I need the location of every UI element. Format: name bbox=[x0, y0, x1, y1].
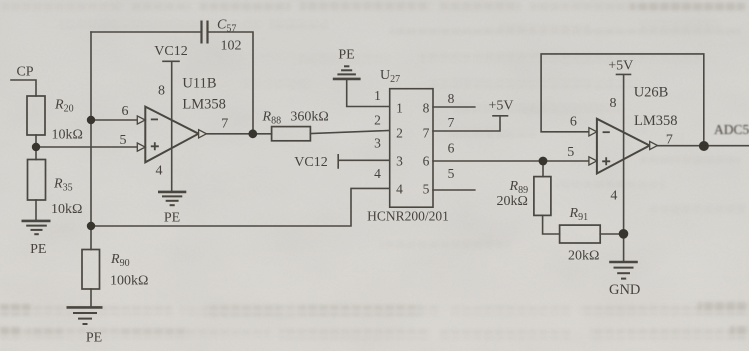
wire U26B output to ADC5 bbox=[656, 145, 749, 147]
svg-text:360kΩ: 360kΩ bbox=[290, 110, 328, 125]
svg-text:PE: PE bbox=[164, 211, 180, 226]
pin 6 input arrow bbox=[589, 128, 597, 136]
wire U26B pin 8 stem to +5V bar bbox=[617, 74, 631, 261]
ground PE under R90 bbox=[67, 307, 103, 324]
svg-text:10kΩ: 10kΩ bbox=[51, 202, 82, 217]
svg-text:PE: PE bbox=[338, 48, 354, 63]
resistor R89 bbox=[534, 177, 551, 216]
svg-text:GND: GND bbox=[609, 282, 640, 298]
wire node to op-amp pin 5 bbox=[36, 146, 138, 148]
wire U27 pin 7 to +5V bar bbox=[433, 116, 508, 131]
svg-text:+5V: +5V bbox=[488, 99, 513, 114]
output arrow pin 7 bbox=[650, 141, 658, 149]
svg-text:LM358: LM358 bbox=[182, 97, 226, 113]
resistor R20 bbox=[27, 96, 45, 135]
wire PE to U27 pin 1 bbox=[347, 79, 390, 107]
plus sign bbox=[151, 142, 159, 150]
svg-text:U11B: U11B bbox=[182, 76, 216, 92]
ground PE above U27 pin 1 (inverted) bbox=[333, 66, 361, 79]
wire R89 top stem bbox=[542, 161, 544, 177]
wire R90 top stem bbox=[90, 226, 92, 250]
svg-text:8: 8 bbox=[610, 96, 617, 111]
svg-text:VC12: VC12 bbox=[154, 44, 187, 59]
svg-text:7: 7 bbox=[221, 117, 228, 132]
junction node R89 top bbox=[539, 157, 548, 166]
pin 5 input arrow bbox=[589, 157, 597, 165]
capacitor C57 bbox=[202, 21, 208, 44]
wire VC12 tick to U27 pin 3 bbox=[338, 155, 390, 168]
resistor R35 bbox=[28, 160, 46, 201]
junction node U11B output bbox=[248, 129, 257, 138]
svg-text:ADC5: ADC5 bbox=[714, 122, 749, 137]
svg-text:5: 5 bbox=[567, 145, 574, 160]
svg-text:6: 6 bbox=[570, 115, 577, 130]
svg-text:4: 4 bbox=[156, 164, 163, 179]
wire R89 bottom to R91 bbox=[543, 215, 560, 234]
svg-text:5: 5 bbox=[120, 133, 127, 148]
svg-text:7: 7 bbox=[448, 115, 455, 130]
svg-text:100kΩ: 100kΩ bbox=[110, 274, 148, 289]
svg-text:2: 2 bbox=[374, 113, 381, 128]
wire bottom net to U27 pin 4 bbox=[91, 188, 390, 226]
svg-text:4: 4 bbox=[374, 166, 381, 181]
svg-text:5: 5 bbox=[423, 181, 430, 196]
wire U27 pin 5 stub bbox=[433, 189, 475, 191]
output arrow pin 7 bbox=[199, 130, 207, 138]
wire U27 pin 6 to U26B pin 5 bbox=[433, 160, 589, 162]
minus sign bbox=[151, 118, 158, 120]
wire U11B output to R88 bbox=[205, 133, 272, 135]
svg-text:3: 3 bbox=[374, 136, 381, 151]
svg-text:20kΩ: 20kΩ bbox=[497, 194, 528, 209]
wire R91 to GND node bbox=[600, 233, 623, 235]
pin 5 input arrow bbox=[137, 143, 145, 151]
ground PE under R35 bbox=[22, 221, 51, 234]
wire node to R35 bbox=[35, 147, 37, 160]
svg-text:CP: CP bbox=[16, 65, 33, 80]
wire op-amp pin 6 input bbox=[91, 119, 138, 121]
wire R35 to PE bbox=[35, 200, 37, 220]
svg-text:1: 1 bbox=[374, 88, 381, 103]
wire R20 bottom to node bbox=[35, 135, 37, 147]
svg-text:6: 6 bbox=[448, 141, 455, 156]
plus sign bbox=[602, 157, 610, 165]
op-amp U26B bbox=[589, 119, 658, 174]
pin 6 input arrow bbox=[137, 116, 145, 124]
svg-text:3: 3 bbox=[396, 154, 403, 169]
minus sign bbox=[603, 131, 610, 133]
ground PE under U11B pin 4 bbox=[158, 192, 186, 205]
svg-text:+5V: +5V bbox=[608, 59, 633, 74]
wire R90 bottom to PE bbox=[90, 289, 92, 307]
svg-text:8: 8 bbox=[158, 84, 165, 99]
svg-text:VC12: VC12 bbox=[294, 155, 327, 170]
op-amp U11B bbox=[137, 107, 206, 163]
svg-text:4: 4 bbox=[396, 181, 403, 196]
svg-text:20kΩ: 20kΩ bbox=[568, 249, 599, 264]
junction node pin6 net bbox=[87, 116, 95, 124]
resistor R88 bbox=[272, 127, 311, 141]
svg-text:10kΩ: 10kΩ bbox=[52, 128, 83, 143]
resistor R91 bbox=[560, 225, 601, 243]
svg-text:7: 7 bbox=[423, 126, 430, 141]
svg-text:8: 8 bbox=[448, 91, 455, 106]
wire U26B feedback loop bbox=[541, 54, 704, 146]
wire C57 to output vertical bbox=[208, 32, 254, 131]
wire top feedback to C57 bbox=[91, 31, 201, 33]
svg-text:1: 1 bbox=[396, 101, 403, 116]
junction node bottom net R90 bbox=[87, 222, 95, 230]
svg-text:2: 2 bbox=[396, 126, 403, 141]
junction node R20/R35 bbox=[32, 143, 40, 151]
junction node R91/GND bbox=[619, 229, 629, 239]
wire U11B pin 8 stem to VC12 bar bbox=[163, 61, 179, 191]
junction node U26B output bbox=[699, 141, 709, 151]
svg-text:6: 6 bbox=[122, 104, 129, 119]
ground GND under U26B bbox=[609, 262, 638, 279]
wire R88 to U27 pin 2 bbox=[310, 131, 389, 134]
wire net: feedback vertical left bbox=[90, 32, 92, 226]
svg-text:6: 6 bbox=[423, 154, 430, 169]
wire U27 pin 8 stub bbox=[433, 106, 475, 108]
svg-text:U26B: U26B bbox=[634, 85, 669, 101]
svg-text:5: 5 bbox=[448, 166, 455, 181]
svg-text:PE: PE bbox=[86, 331, 102, 346]
svg-text:8: 8 bbox=[423, 101, 430, 116]
svg-text:LM358: LM358 bbox=[634, 113, 678, 129]
node CP input lead wire bbox=[11, 80, 36, 96]
svg-text:102: 102 bbox=[221, 39, 242, 54]
svg-text:7: 7 bbox=[666, 133, 673, 148]
resistor R90 bbox=[82, 250, 100, 290]
svg-text:4: 4 bbox=[610, 189, 617, 204]
opto-isolator U27 body bbox=[390, 89, 433, 208]
svg-text:HCNR200/201: HCNR200/201 bbox=[367, 209, 449, 224]
svg-text:PE: PE bbox=[30, 242, 46, 257]
